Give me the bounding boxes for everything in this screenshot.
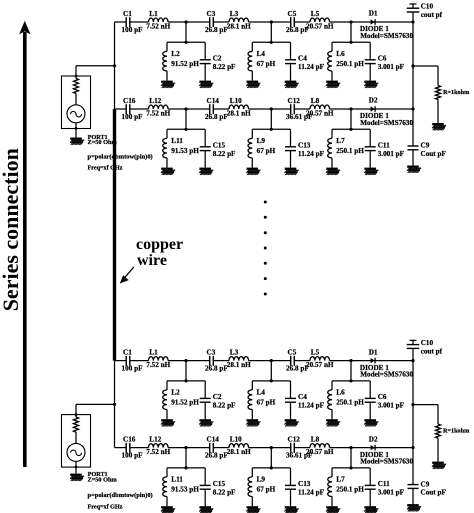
- diode D1: [360, 10, 414, 40]
- ground under C4: [285, 419, 299, 426]
- svg-text:C6: C6: [378, 55, 387, 63]
- wire shunt L lead: [251, 468, 253, 477]
- wire shunt L lead: [251, 129, 253, 138]
- inductor L11: [163, 137, 200, 158]
- wire shunt L lead: [331, 42, 333, 51]
- junction node x=186 y=22: [184, 359, 187, 362]
- wire shunt C to ground: [290, 489, 292, 506]
- junction node x=351 y=22: [349, 359, 352, 362]
- svg-text:L7: L7: [336, 137, 345, 145]
- ground under C15: [199, 168, 213, 175]
- ground under L9: [246, 168, 260, 175]
- wire shunt L to ground: [251, 410, 253, 420]
- inductor L2: [163, 389, 200, 410]
- wire shunt feed at x=271.3: [252, 361, 290, 381]
- svg-text:8.22 pF: 8.22 pF: [213, 63, 236, 71]
- svg-text:C12: C12: [288, 97, 301, 105]
- svg-text:C14: C14: [207, 97, 220, 105]
- wire R to ground: [437, 100, 439, 124]
- svg-text:28.1 nH: 28.1 nH: [227, 448, 251, 456]
- svg-text:100 pF: 100 pF: [122, 113, 144, 121]
- wire shunt feed at x=186: [167, 22, 205, 42]
- svg-text:C16: C16: [123, 97, 136, 105]
- ground under C9: [407, 166, 421, 173]
- capacitor C6: [365, 55, 405, 72]
- svg-text:Model=SMS7630: Model=SMS7630: [360, 32, 413, 40]
- svg-text:91.52 pH: 91.52 pH: [171, 399, 199, 407]
- ground under L4: [246, 419, 260, 426]
- svg-text:3.001 pF: 3.001 pF: [378, 402, 405, 410]
- svg-text:L9: L9: [257, 476, 266, 484]
- svg-text:7.52 nH: 7.52 nH: [146, 22, 170, 30]
- svg-text:250.1 pH: 250.1 pH: [336, 486, 364, 494]
- svg-text:Model=SMS7630: Model=SMS7630: [360, 458, 413, 466]
- svg-text:Cout pF: Cout pF: [421, 150, 447, 158]
- svg-text:C9: C9: [421, 142, 430, 150]
- AC source symbol (block 1): [67, 105, 85, 123]
- wire shunt feed at x=351: [332, 109, 370, 129]
- capacitor C10: [407, 3, 443, 20]
- ground under L6: [326, 81, 340, 88]
- wire shunt C lead: [369, 468, 371, 486]
- ground under L6: [326, 419, 340, 426]
- inductor L3: [227, 349, 251, 369]
- svg-text:28.1 nH: 28.1 nH: [227, 361, 251, 369]
- wire shunt C to ground: [290, 151, 292, 168]
- svg-text:28.1 nH: 28.1 nH: [227, 22, 251, 30]
- capacitor C11: [365, 142, 405, 159]
- wire shunt feed at x=271.3: [252, 109, 290, 129]
- junction node x=186 y=22: [184, 20, 187, 23]
- svg-text:Z=50 Ohm: Z=50 Ohm: [88, 476, 118, 483]
- wire shunt feed at x=351: [332, 361, 370, 381]
- capacitor C1: [122, 349, 144, 373]
- svg-text:L3: L3: [230, 349, 239, 357]
- svg-text:L4: L4: [257, 389, 266, 397]
- ground under C2: [199, 419, 213, 426]
- svg-text:cout pf: cout pf: [421, 348, 443, 356]
- wire shunt C to ground: [369, 402, 371, 419]
- port source PORT1 (block 1): [62, 66, 115, 129]
- wire left rail (block 2): [114, 361, 116, 448]
- inductor L4: [248, 389, 276, 410]
- wire shunt L to ground: [166, 71, 168, 81]
- junction node shunt T x=186: [184, 379, 187, 382]
- capacitor C11: [365, 480, 405, 497]
- svg-text:L1: L1: [149, 349, 158, 357]
- ground under L7: [326, 168, 340, 175]
- svg-text:7.52 nH: 7.52 nH: [146, 448, 170, 456]
- wire shunt C to ground: [369, 151, 371, 168]
- svg-text:8.22 pF: 8.22 pF: [213, 489, 236, 497]
- inductor L2: [163, 50, 200, 71]
- wire shunt L to ground: [331, 497, 333, 507]
- capacitor C13: [285, 142, 325, 159]
- wire R branch: [413, 405, 438, 425]
- wire shunt L lead: [251, 42, 253, 51]
- junction node shunt T x=271.3: [270, 379, 273, 382]
- wire shunt C lead: [290, 381, 292, 399]
- wire right rail: [412, 22, 414, 109]
- svg-text:26.8 pF: 26.8 pF: [205, 452, 228, 460]
- svg-text:L12: L12: [149, 436, 161, 444]
- svg-text:C3: C3: [207, 349, 216, 357]
- wire shunt L lead: [331, 381, 333, 390]
- ground under C6: [364, 81, 378, 88]
- svg-text:91.53 pH: 91.53 pH: [171, 147, 199, 155]
- svg-text:20.57 nH: 20.57 nH: [306, 109, 334, 117]
- svg-text:L4: L4: [257, 50, 266, 58]
- svg-text:C11: C11: [378, 480, 390, 488]
- capacitor C5: [286, 349, 309, 373]
- junction node x=271.3 y=109: [270, 446, 273, 449]
- svg-text:C9: C9: [421, 480, 430, 488]
- wire shunt C to ground: [290, 402, 292, 419]
- inductor L11: [163, 476, 200, 497]
- inductor L6: [328, 50, 365, 71]
- capacitor C13: [285, 480, 325, 497]
- svg-text:L3: L3: [230, 10, 239, 18]
- svg-text:20.57 nH: 20.57 nH: [306, 22, 334, 30]
- wire shunt L to ground: [251, 71, 253, 81]
- junction node x=186 y=109: [184, 446, 187, 449]
- diode D2: [360, 97, 414, 127]
- svg-text:C11: C11: [378, 142, 390, 150]
- junction node R branch: [411, 64, 414, 67]
- svg-text:L9: L9: [257, 137, 266, 145]
- junction node shunt T x=271.3: [270, 466, 273, 469]
- wire shunt C lead: [369, 42, 371, 60]
- svg-text:26.8 pF: 26.8 pF: [205, 365, 228, 373]
- svg-text:C3: C3: [207, 10, 216, 18]
- wire R branch: [413, 66, 438, 86]
- svg-text:67 pH: 67 pH: [257, 147, 276, 155]
- svg-text:L11: L11: [171, 137, 183, 145]
- wire shunt feed at x=351: [332, 448, 370, 468]
- inductor L12: [146, 436, 170, 456]
- svg-text:Z=50 Ohm: Z=50 Ohm: [88, 139, 118, 146]
- svg-text:C4: C4: [298, 55, 307, 63]
- svg-text:D1: D1: [369, 348, 378, 356]
- svg-text:L2: L2: [171, 50, 180, 58]
- svg-text:91.53 pH: 91.53 pH: [171, 486, 199, 494]
- svg-text:250.1 pH: 250.1 pH: [336, 147, 364, 155]
- wire shunt L to ground: [166, 158, 168, 168]
- inductor L6: [328, 389, 365, 410]
- capacitor C9: [408, 142, 447, 158]
- capacitor C16: [122, 436, 144, 460]
- wire shunt C to ground: [204, 151, 206, 168]
- svg-text:28.1 nH: 28.1 nH: [227, 109, 251, 117]
- svg-text:C2: C2: [213, 393, 222, 401]
- wire row B to C9: [412, 448, 414, 485]
- junction node shunt T x=271.3: [270, 128, 273, 131]
- wire C10 to row A: [412, 12, 414, 22]
- svg-text:R=1kohm: R=1kohm: [443, 428, 470, 435]
- capacitor C6: [365, 393, 405, 410]
- inductor L5: [306, 10, 334, 30]
- wire shunt L to ground: [331, 71, 333, 81]
- svg-text:26.8 pF: 26.8 pF: [205, 113, 228, 121]
- wire shunt C lead: [290, 129, 292, 147]
- ground under R: [432, 462, 446, 469]
- inductor L3: [227, 10, 251, 30]
- wire copper (thick): [113, 109, 116, 361]
- inductor L5: [306, 349, 334, 369]
- svg-text:L1: L1: [149, 10, 158, 18]
- ground under C9: [407, 504, 421, 511]
- svg-text:8.22 pF: 8.22 pF: [213, 402, 236, 410]
- svg-text:C1: C1: [123, 349, 132, 357]
- capacitor C4: [285, 55, 325, 72]
- junction node right rail y=22: [411, 20, 414, 23]
- svg-text:p=polar(dbmtow(pin)0): p=polar(dbmtow(pin)0): [88, 153, 153, 160]
- svg-text:Freq=xf GHz: Freq=xf GHz: [88, 504, 123, 510]
- junction node shunt T x=186: [184, 41, 187, 44]
- wire row y=22: [115, 21, 414, 23]
- inductor L7: [328, 476, 365, 497]
- svg-text:100 pF: 100 pF: [122, 452, 144, 460]
- wire shunt C lead: [204, 381, 206, 399]
- junction node x=271.3 y=109: [270, 107, 273, 110]
- svg-text:L6: L6: [336, 50, 345, 58]
- continuation dots: [264, 201, 267, 296]
- svg-text:L6: L6: [336, 389, 345, 397]
- capacitor C16: [122, 97, 144, 121]
- wire C10 terminal: [410, 4, 417, 8]
- svg-text:D1: D1: [369, 10, 378, 18]
- wire shunt C lead: [290, 468, 292, 486]
- wire shunt L to ground: [331, 410, 333, 420]
- svg-text:3.001 pF: 3.001 pF: [378, 63, 405, 71]
- svg-text:20.57 nH: 20.57 nH: [306, 448, 334, 456]
- ground under C15: [199, 506, 213, 513]
- capacitor C2: [200, 55, 236, 72]
- junction node shunt T x=351: [349, 379, 352, 382]
- svg-text:7.52 nH: 7.52 nH: [146, 361, 170, 369]
- junction node box bottom pin: [75, 466, 78, 469]
- wire shunt L to ground: [251, 497, 253, 507]
- ground under L2: [161, 81, 175, 88]
- svg-text:3.001 pF: 3.001 pF: [378, 150, 405, 158]
- svg-text:C10: C10: [421, 339, 434, 347]
- wire shunt L lead: [166, 42, 168, 51]
- wire right rail: [412, 361, 414, 448]
- junction node box top pin: [75, 413, 78, 416]
- svg-text:11.24 pF: 11.24 pF: [298, 63, 325, 71]
- wire shunt C lead: [204, 468, 206, 486]
- AC source symbol (block 2): [67, 443, 85, 461]
- ground under C13: [285, 506, 299, 513]
- capacitor C14: [205, 97, 228, 121]
- wire source to ground: [75, 123, 77, 138]
- capacitor C1: [122, 10, 144, 34]
- svg-text:20.57 nH: 20.57 nH: [306, 361, 334, 369]
- svg-text:C12: C12: [288, 436, 301, 444]
- svg-text:L8: L8: [311, 436, 320, 444]
- svg-text:C10: C10: [421, 3, 434, 11]
- wire shunt C to ground: [369, 489, 371, 506]
- capacitor C9: [408, 480, 447, 496]
- resistor R=1kohm: [436, 424, 471, 438]
- wire shunt C to ground: [369, 64, 371, 81]
- wire row y=22: [115, 360, 414, 362]
- wire shunt feed at x=186: [167, 109, 205, 129]
- ground port1: [70, 138, 84, 145]
- svg-text:L11: L11: [171, 476, 183, 484]
- wire row B to C9: [412, 109, 414, 146]
- wire row y=109: [115, 108, 414, 110]
- wire shunt L lead: [331, 468, 333, 477]
- wire shunt feed at x=351: [332, 22, 370, 42]
- wire shunt L to ground: [251, 158, 253, 168]
- wire shunt L to ground: [166, 497, 168, 507]
- capacitor C12: [286, 97, 313, 121]
- wire left rail (block 1): [114, 22, 116, 109]
- junction node shunt T x=271.3: [270, 41, 273, 44]
- series-connection arrow: [19, 21, 30, 467]
- wire shunt feed at x=271.3: [252, 22, 290, 42]
- wire shunt C lead: [369, 381, 371, 399]
- wire: [75, 94, 77, 105]
- svg-text:D2: D2: [369, 97, 378, 105]
- junction node box bottom pin: [75, 127, 78, 130]
- wire shunt C lead: [290, 42, 292, 60]
- svg-text:C1: C1: [123, 10, 132, 18]
- ground under C6: [364, 419, 378, 426]
- svg-text:Series connection: Series connection: [0, 148, 23, 311]
- inductor L1: [146, 10, 170, 30]
- junction node shunt T x=351: [349, 41, 352, 44]
- resistor internal 50-ohm (block 2): [74, 417, 79, 432]
- junction node right rail y=109: [411, 107, 414, 110]
- svg-text:67 pH: 67 pH: [257, 399, 276, 407]
- wire shunt feed at x=186: [167, 448, 205, 468]
- capacitor C3: [205, 10, 228, 34]
- inductor L12: [146, 97, 170, 117]
- wire R to ground: [437, 438, 439, 462]
- ground under L7: [326, 506, 340, 513]
- junction node right rail y=109: [411, 446, 414, 449]
- svg-text:100 pF: 100 pF: [122, 365, 144, 373]
- ground under L2: [161, 419, 175, 426]
- junction node x=351 y=22: [349, 20, 352, 23]
- junction node shunt T x=351: [349, 128, 352, 131]
- wire shunt L lead: [251, 381, 253, 390]
- svg-text:p=polar(dbmtow(pin)0): p=polar(dbmtow(pin)0): [88, 492, 153, 499]
- inductor L8: [306, 436, 334, 456]
- wire C10 terminal: [410, 340, 417, 344]
- svg-text:L12: L12: [149, 97, 161, 105]
- wire shunt L lead: [166, 468, 168, 477]
- wire: [75, 432, 77, 443]
- wire shunt C lead: [204, 129, 206, 147]
- junction node shunt T x=351: [349, 466, 352, 469]
- wire C9 to ground: [412, 488, 414, 504]
- wire shunt C to ground: [204, 402, 206, 419]
- svg-text:L5: L5: [311, 349, 320, 357]
- junction node x=351 y=109: [349, 107, 352, 110]
- wire shunt L lead: [166, 381, 168, 390]
- svg-text:Freq=xf GHz: Freq=xf GHz: [88, 166, 123, 172]
- port source PORT1 (block 2): [62, 404, 115, 467]
- wire shunt L lead: [166, 129, 168, 138]
- ground under C11: [364, 168, 378, 175]
- capacitor C12: [286, 436, 313, 460]
- diode D1: [360, 348, 414, 378]
- svg-text:11.24 pF: 11.24 pF: [298, 489, 325, 497]
- wire shunt C to ground: [204, 489, 206, 506]
- svg-text:wire: wire: [137, 252, 167, 269]
- capacitor C15: [200, 142, 236, 159]
- wire source to ground: [75, 461, 77, 473]
- svg-text:7.52 nH: 7.52 nH: [146, 109, 170, 117]
- inductor L7: [328, 137, 365, 158]
- ground under C2: [199, 81, 213, 88]
- svg-text:11.24 pF: 11.24 pF: [298, 150, 325, 158]
- junction node x=271.3 y=22: [270, 359, 273, 362]
- ground under C11: [364, 506, 378, 513]
- junction node port tap: [113, 64, 116, 67]
- resistor R=1kohm: [436, 86, 471, 100]
- svg-text:Model=SMS7630: Model=SMS7630: [360, 371, 413, 379]
- svg-text:C15: C15: [213, 142, 226, 150]
- junction node R branch: [411, 403, 414, 406]
- wire C9 to ground: [412, 150, 414, 166]
- junction node x=186 y=109: [184, 107, 187, 110]
- ground under L11: [161, 168, 175, 175]
- capacitor C15: [200, 480, 236, 497]
- copper wire pointer arrow: [120, 267, 134, 284]
- junction node shunt T x=186: [184, 128, 187, 131]
- wire shunt C lead: [204, 42, 206, 60]
- wire shunt C to ground: [204, 64, 206, 81]
- svg-text:R=1kohm: R=1kohm: [443, 89, 470, 96]
- svg-text:C13: C13: [298, 142, 311, 150]
- junction node right rail y=22: [411, 359, 414, 362]
- svg-text:C15: C15: [213, 480, 226, 488]
- resistor internal 50-ohm (block 1): [74, 79, 79, 94]
- svg-text:C5: C5: [288, 10, 297, 18]
- svg-text:250.1 pH: 250.1 pH: [336, 60, 364, 68]
- ground under L11: [161, 506, 175, 513]
- svg-text:C2: C2: [213, 55, 222, 63]
- ground port2: [70, 474, 84, 481]
- svg-text:D2: D2: [369, 435, 378, 443]
- svg-text:91.52 pH: 91.52 pH: [171, 60, 199, 68]
- svg-text:cout pf: cout pf: [421, 11, 443, 19]
- wire shunt feed at x=271.3: [252, 448, 290, 468]
- junction node port tap: [113, 403, 116, 406]
- wire shunt L lead: [331, 129, 333, 138]
- wire shunt C to ground: [290, 64, 292, 81]
- svg-text:8.22 pF: 8.22 pF: [213, 150, 236, 158]
- svg-text:67 pH: 67 pH: [257, 486, 276, 494]
- diode D2: [360, 435, 414, 465]
- inductor L9: [248, 137, 276, 158]
- svg-text:L5: L5: [311, 10, 320, 18]
- capacitor C2: [200, 393, 236, 410]
- svg-text:67 pH: 67 pH: [257, 60, 276, 68]
- svg-text:L7: L7: [336, 476, 345, 484]
- svg-text:L2: L2: [171, 389, 180, 397]
- svg-text:100 pF: 100 pF: [122, 26, 144, 34]
- svg-text:250.1 pH: 250.1 pH: [336, 399, 364, 407]
- inductor L9: [248, 476, 276, 497]
- junction node box top pin: [75, 75, 78, 78]
- capacitor C3: [205, 349, 228, 373]
- wire shunt feed at x=186: [167, 361, 205, 381]
